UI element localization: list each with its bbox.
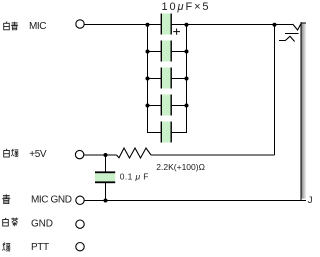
wire riser to MIC line bbox=[274, 24, 276, 155]
capacitor C5 10uF bbox=[161, 122, 171, 143]
node junction +5V feed on MIC line bbox=[273, 23, 277, 27]
terminal GND bbox=[76, 220, 84, 228]
wire rung 5 left bbox=[147, 132, 161, 134]
svg-text:PTT: PTT bbox=[31, 242, 49, 253]
resistor R1 2.2K bbox=[117, 148, 152, 158]
wire resistor to riser bbox=[151, 154, 275, 156]
wire rung 5 right bbox=[172, 132, 187, 134]
wire rung 4 right bbox=[172, 105, 187, 107]
node junction right bus top bbox=[185, 23, 189, 27]
node junction rung3 left bbox=[146, 77, 150, 81]
net label 白緑 bbox=[4, 149, 19, 157]
svg-text:2.2K(+100)Ω: 2.2K(+100)Ω bbox=[156, 162, 205, 172]
node junction left bus top bbox=[146, 23, 150, 27]
terminal MIC GND bbox=[76, 196, 84, 204]
net label 緑 bbox=[3, 243, 11, 252]
connector J top edge bbox=[300, 22, 306, 24]
wire 0.1uF bottom lead bbox=[105, 183, 107, 201]
terminal PTT bbox=[76, 243, 84, 251]
capacitor C4 10uF bbox=[161, 95, 171, 116]
terminal +5V bbox=[75, 150, 83, 158]
svg-text:MIC: MIC bbox=[29, 21, 46, 32]
wire rung 2 right bbox=[172, 51, 187, 53]
wire rung 3 left bbox=[147, 78, 161, 80]
capacitor C6 0.1uF bbox=[95, 171, 115, 183]
wire MIC GND to connector bbox=[84, 200, 305, 202]
svg-text:10μF×5: 10μF×5 bbox=[162, 1, 211, 13]
terminal MIC bbox=[76, 20, 84, 28]
wire 0.1uF top lead bbox=[105, 155, 107, 172]
capacitor C1 10uF bbox=[161, 14, 171, 35]
wire right bus bbox=[186, 24, 188, 133]
polarity + mark of C1 bbox=[173, 29, 180, 35]
svg-text:0.1 μ F: 0.1 μ F bbox=[120, 172, 149, 182]
wire break mark straight bbox=[285, 33, 299, 35]
wire left bus bbox=[147, 24, 149, 133]
node junction 0.1uF on GND bbox=[104, 199, 108, 203]
wire MIC terminal to C1 left plate bbox=[84, 24, 161, 26]
wire +5V terminal to resistor bbox=[84, 154, 117, 156]
wire rung 3 right bbox=[172, 78, 187, 80]
wire break mark zigzag bbox=[279, 36, 295, 41]
node junction rung4 left bbox=[146, 104, 150, 108]
capacitor C3 10uF bbox=[161, 68, 171, 89]
wire rung 4 left bbox=[147, 105, 161, 107]
node junction rung3 right bbox=[185, 77, 189, 81]
svg-text:GND: GND bbox=[31, 218, 53, 229]
connector J body shade bbox=[301, 23, 306, 199]
capacitor C2 10uF bbox=[161, 41, 171, 62]
wire break V notch on MIC line bbox=[293, 24, 301, 30]
wire rung 2 left bbox=[147, 51, 161, 53]
connector J left edge bbox=[300, 22, 302, 201]
svg-text:+5V: +5V bbox=[29, 149, 47, 160]
node junction rung2 right bbox=[185, 50, 189, 54]
node junction rung2 left bbox=[146, 50, 150, 54]
node junction 0.1uF tap bbox=[104, 153, 108, 157]
wire C1 right plate to connector bbox=[172, 24, 293, 26]
net label 青 bbox=[2, 194, 10, 203]
net label 白青 (wire color) bbox=[4, 22, 18, 30]
svg-text:J: J bbox=[308, 195, 313, 206]
net label 白茶 bbox=[3, 218, 19, 227]
svg-text:MIC GND: MIC GND bbox=[31, 195, 72, 206]
node junction rung4 right bbox=[185, 104, 189, 108]
